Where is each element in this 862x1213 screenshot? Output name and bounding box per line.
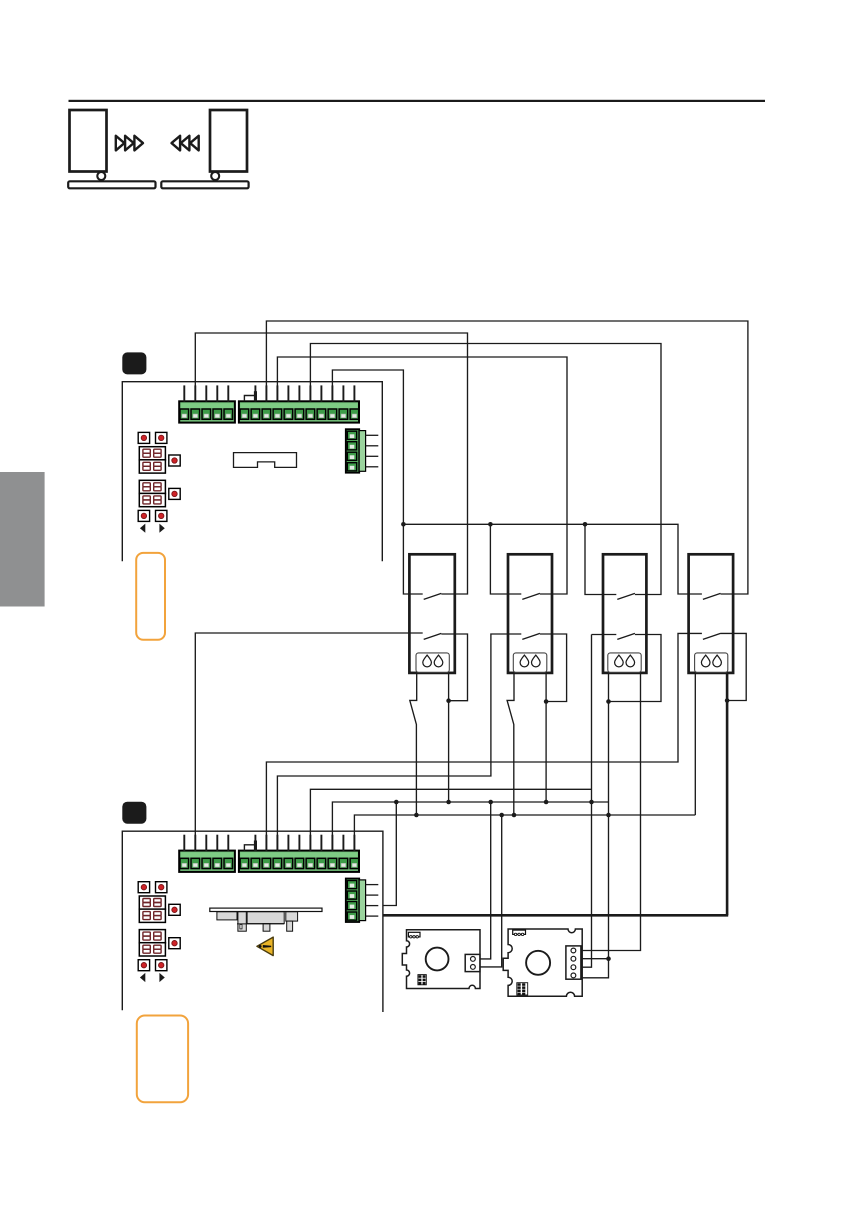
relay K2 coil A wire with limit switch	[507, 673, 514, 815]
plug-in module side view on board 2	[210, 908, 322, 931]
header rule	[69, 100, 766, 102]
relay K3 coil	[608, 653, 641, 672]
relay K2 coil B wire	[545, 673, 547, 802]
relay K2 coil	[513, 653, 547, 672]
wire line4 to board2 encoder connector	[383, 802, 396, 906]
relay K3 contact 1 blade	[617, 593, 635, 599]
wire motor M2 pin2	[581, 958, 609, 960]
junction line4/board2 aux	[394, 800, 399, 805]
note box 2 (orange)	[137, 1016, 188, 1103]
door roller left	[97, 172, 105, 180]
relay K4 coil	[695, 653, 728, 672]
motor M2 terminal box	[566, 946, 581, 979]
motor M1 terminal box	[465, 954, 480, 971]
relay K1 contact 1 blade	[424, 593, 442, 599]
junction K3 coil A	[606, 699, 611, 704]
junction K2 coil B	[544, 699, 549, 704]
junction M2 pin2/pin4	[606, 956, 611, 961]
door rail right	[161, 181, 248, 188]
junction K1 coil B	[446, 698, 451, 703]
door rail left	[68, 181, 155, 188]
control board 2 (slave)	[122, 831, 383, 1012]
warning triangle	[257, 937, 273, 956]
motor M1 top connector	[408, 932, 420, 938]
motor M2 dip connector	[517, 983, 528, 995]
bus branch to relay K2 contact1 in	[490, 524, 521, 594]
common bus to relay K4 contact1 in	[403, 524, 702, 594]
junction K4 coil B	[725, 698, 730, 703]
relay K2 contact 2 blade	[522, 633, 540, 639]
wire board2 blk1-pin2 to relay K1 contact2 in	[195, 633, 422, 851]
wire motor M2 pin4 bridge	[581, 959, 609, 978]
junction line4/motor M1 A	[488, 800, 493, 805]
wire board1 pin4 to relay K2 contact1 out	[277, 357, 567, 594]
wire board2 pin11 motor common line	[354, 815, 695, 851]
motor M1 plate	[402, 930, 480, 989]
door leaf left	[70, 110, 107, 172]
relay footprint outline on board 1	[234, 453, 297, 468]
junction line5/K2 coil A	[512, 813, 517, 818]
relay K4 contact 1 blade	[703, 593, 721, 599]
relay K1 coil A wire with limit switch	[410, 673, 417, 815]
wire motor M1 terminal B	[480, 815, 502, 967]
door leaf right	[210, 110, 247, 172]
motor M2 top connector	[513, 930, 526, 936]
bold return wire to board 2	[383, 914, 728, 917]
relay K3 contact2 out to coil junction	[609, 635, 662, 702]
junction bus/K1 feed	[401, 522, 406, 527]
wire board2 pin7 to relay K3 contact2 in	[310, 789, 591, 850]
junction line5/motor M1 B	[499, 813, 504, 818]
relay K2 contact 1 blade	[522, 593, 540, 599]
relay K1 coil B wire	[448, 673, 450, 802]
junction line5/K3 coil A	[606, 813, 611, 818]
junction line4/K3 riser	[589, 800, 594, 805]
wire motor M1 terminal A	[480, 802, 491, 959]
control board 1 (master)	[122, 382, 382, 562]
wire board2 pin4 to relay K2 contact2 in	[277, 634, 521, 851]
relay K1 coil	[416, 653, 449, 672]
wire board1 pin7 to relay K3 contact1 out	[310, 344, 661, 595]
bus branch to relay K3 contact1 in	[585, 524, 616, 594]
open-direction arrows (right)	[116, 136, 143, 151]
note box 1 (orange)	[136, 553, 165, 640]
relay K3 body	[603, 554, 646, 673]
relay K4 contact 2 blade	[703, 633, 721, 639]
relay K4 contact2 out to coil junction	[721, 633, 747, 700]
relay K2 contact2 out to coil junction	[540, 634, 567, 702]
relay K1 contact2 out to coil junction	[441, 634, 467, 701]
relay K4 body	[689, 554, 734, 673]
motor M1 dip connector	[418, 975, 426, 985]
junction line5/K1 coil A	[414, 813, 419, 818]
relay K3 coil A wire to motor M2	[608, 673, 610, 959]
door roller right	[211, 172, 219, 180]
junction line4/K1 coil B	[446, 800, 451, 805]
relay K3 contact 2 blade	[617, 633, 635, 639]
page side tab	[0, 472, 45, 607]
wire board1 pin3 to relay K4 contact1 out	[266, 321, 748, 594]
junction bus/K2 feed	[488, 522, 493, 527]
relay K3 coil B wire to motor M2 pin1	[581, 673, 641, 951]
relay K3 contact2 in riser / motor M2 pin3	[581, 635, 592, 968]
relay K4 coil A wire	[694, 673, 696, 815]
motor M2 plate	[503, 929, 582, 996]
wire board2 pin3 to relay K4 contact2 in	[266, 633, 702, 850]
junction bus/K3 feed	[583, 522, 588, 527]
relay K2 body	[508, 554, 552, 673]
wire board1 pin9 common feed to relay K1 contact1 in	[332, 370, 422, 594]
wire board1 blk1-pin2 to relay K1 contact1 out	[195, 333, 467, 594]
relay K1 body	[409, 554, 454, 673]
motor M2 shaft circle	[526, 951, 550, 975]
relay K4 coil B wire (bold)	[726, 673, 729, 915]
relay K1 contact 2 blade	[424, 633, 442, 639]
junction line4/K2 coil B	[544, 800, 549, 805]
relay K3 contact2 in stub	[592, 634, 617, 636]
wire board2 pin9 motor common line	[332, 802, 608, 851]
motor M1 shaft circle	[426, 948, 449, 971]
close-direction arrows (left)	[172, 136, 199, 151]
